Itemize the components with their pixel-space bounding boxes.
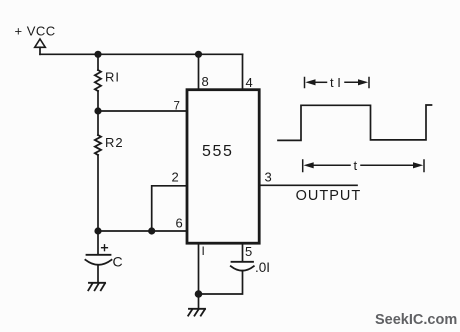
svg-text:t I: t I: [330, 75, 341, 90]
wire pin 2: [152, 186, 187, 231]
555 label: [202, 143, 234, 160]
pin 3 label: [265, 170, 272, 185]
R1 label: [105, 70, 120, 85]
pin 4 label: [246, 75, 253, 90]
dimension t right bar: [423, 160, 425, 172]
dimension t right arrowhead: [413, 162, 423, 168]
svg-text:C: C: [113, 254, 123, 270]
svg-text:.0I: .0I: [255, 260, 270, 275]
+VCC label: [15, 24, 56, 39]
svg-text:8: 8: [202, 74, 209, 89]
svg-text:7: 7: [174, 101, 180, 113]
dimension t left bar: [302, 160, 304, 172]
wire node6 to C: [97, 231, 99, 255]
junction R1/R2/pin7: [94, 107, 101, 114]
wire R2 to node6: [97, 155, 99, 231]
wire pin 1: [198, 243, 200, 294]
pin 6 label: [176, 216, 183, 231]
wire pin 5: [242, 243, 244, 261]
dimension t1 left bar: [304, 78, 306, 88]
wire pin 7: [98, 110, 187, 112]
wire C2 to node1: [199, 271, 243, 294]
wire R1 to node7: [97, 91, 99, 111]
svg-text:555: 555: [202, 143, 234, 160]
junction pin1/C2: [195, 290, 203, 298]
svg-text:I: I: [202, 244, 205, 258]
svg-text:2: 2: [172, 170, 179, 185]
svg-text:+ VCC: + VCC: [15, 24, 56, 39]
junction VCC/pin8: [195, 51, 202, 58]
svg-text:4: 4: [246, 75, 253, 90]
svg-text:3: 3: [265, 170, 272, 185]
wire C to ground: [97, 265, 99, 283]
SeekIC watermark: [375, 312, 457, 328]
dimension t label: [354, 158, 358, 173]
svg-text:RI: RI: [105, 70, 120, 85]
junction VCC/R1: [94, 51, 101, 58]
capacitor C2 .01: [231, 262, 254, 271]
wire VCC rail: [40, 53, 243, 55]
capacitor C: [85, 255, 111, 265]
VCC terminal arrow: [35, 39, 46, 54]
C label: [113, 254, 123, 270]
R2 label: [105, 135, 124, 150]
ground (pin 1): [188, 309, 205, 316]
wire node7 to R2: [97, 111, 99, 135]
wire node1 to ground: [198, 294, 200, 309]
capacitor C polarity +: [102, 245, 108, 251]
dimension t left arrowhead: [304, 162, 314, 168]
dimension t1 shaft left: [314, 81, 327, 83]
waveform square wave: [278, 105, 432, 140]
dimension t1 right arrowhead: [358, 79, 368, 85]
pin 5 label: [245, 244, 252, 259]
pin 1 label: [202, 244, 205, 258]
svg-text:SeekIC.com: SeekIC.com: [375, 312, 457, 328]
wire pin 8: [198, 54, 200, 90]
svg-text:6: 6: [176, 216, 183, 231]
dimension t1 shaft right: [345, 81, 360, 83]
wire pin 3 output: [259, 184, 357, 186]
resistor R1: [95, 70, 101, 91]
svg-text:5: 5: [245, 244, 252, 259]
ground (C): [88, 283, 105, 291]
dimension t1 left arrowhead: [305, 79, 315, 85]
junction R2/C/pin6: [94, 227, 101, 234]
wire VCC to R1: [97, 54, 99, 70]
OUTPUT label: [296, 188, 362, 204]
pin 7 label: [174, 101, 180, 113]
wire pin 6: [98, 230, 187, 232]
resistor R2: [95, 135, 101, 155]
wire pin 4: [242, 54, 244, 90]
svg-text:OUTPUT: OUTPUT: [296, 188, 362, 204]
pin 8 label: [202, 74, 209, 89]
dimension t1 label: [330, 75, 341, 90]
svg-text:t: t: [354, 158, 358, 173]
pin 2 label: [172, 170, 179, 185]
op-amp-style IC U1 555 box: [187, 90, 259, 244]
dimension t shaft left: [312, 164, 350, 166]
dimension t1 right bar: [368, 78, 370, 88]
svg-text:R2: R2: [105, 135, 124, 150]
dimension t shaft right: [361, 164, 414, 166]
.01 label: [255, 260, 270, 275]
junction pin2/pin6: [148, 227, 155, 234]
